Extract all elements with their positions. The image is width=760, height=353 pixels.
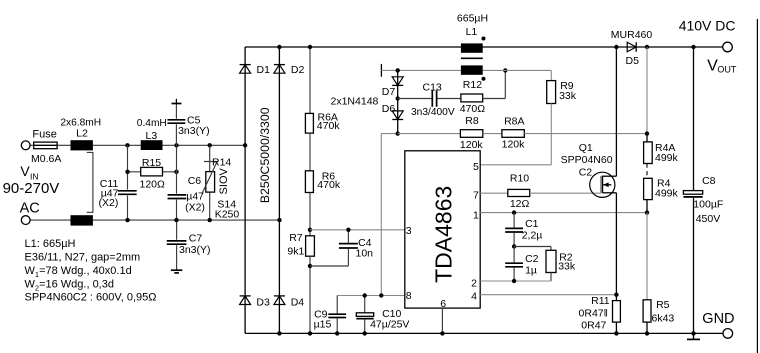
svg-text:1: 1 — [473, 209, 479, 221]
varistor R14 body — [206, 172, 215, 193]
wire R9 to pin 5 — [550, 104, 552, 165]
varistor R14 arrow — [202, 162, 217, 195]
diode D7 — [392, 77, 403, 86]
wire L2 bottom to bridge right leg — [93, 219, 280, 221]
wire to R5 — [646, 213, 648, 300]
svg-text:0.4mH: 0.4mH — [137, 118, 167, 129]
svg-text:90-270V: 90-270V — [3, 180, 60, 197]
junction dot C10 at gnd rail — [363, 331, 367, 335]
svg-text:L1: L1 — [466, 26, 478, 38]
pin 7 wire to R10 — [480, 192, 508, 194]
junction dot C1 top — [512, 210, 516, 214]
diode D2 — [274, 65, 285, 74]
junction dot source/pin4/R11 — [614, 293, 618, 297]
svg-text:OUT: OUT — [717, 65, 737, 75]
bottom GND rail — [245, 332, 723, 334]
junction dot D7 top — [396, 68, 400, 72]
svg-text:4: 4 — [471, 290, 477, 302]
wire R6 to pin3 node — [309, 193, 311, 236]
L1 polarity dot top — [482, 37, 486, 41]
svg-text:3: 3 — [406, 225, 412, 237]
pin 4 wire — [480, 294, 616, 296]
svg-text:R5: R5 — [656, 299, 670, 311]
junction dot pin6 at gnd rail — [440, 331, 444, 335]
R15 left junction dot — [125, 170, 129, 174]
svg-text:C7: C7 — [189, 233, 203, 245]
junction dot C8 at gnd rail — [691, 331, 695, 335]
junction dot R14 branch — [208, 143, 212, 147]
svg-text:3n3(Y): 3n3(Y) — [178, 125, 210, 137]
IC U1 TDA4863 body — [405, 151, 480, 308]
svg-text:5: 5 — [473, 161, 479, 173]
transistor Q1 circle — [590, 172, 615, 197]
capacitor C6 — [167, 195, 188, 199]
capacitor C1 — [504, 228, 524, 232]
diode D3 — [240, 296, 251, 305]
input terminal bottom (neutral) — [21, 216, 30, 225]
L1 secondary polarity dot — [482, 77, 486, 81]
wire rail to R4A node — [646, 47, 648, 134]
svg-text:D1: D1 — [257, 64, 271, 76]
capacitor C11 — [117, 191, 138, 195]
wire secondary right to R9 — [483, 69, 552, 71]
inductor L2 lower winding — [71, 215, 93, 225]
junction dot C5 branch — [174, 143, 178, 147]
junction dot D6 bottom — [396, 131, 400, 135]
bridge left leg wire — [244, 47, 246, 333]
resistor R6A — [305, 113, 313, 133]
svg-text:R8: R8 — [465, 115, 479, 127]
svg-text:D2: D2 — [291, 64, 305, 76]
junction dot R6 chain at rail — [308, 45, 312, 49]
resistor R2 — [546, 250, 556, 272]
wire L3 to bridge — [163, 144, 246, 146]
svg-text:(X2): (X2) — [185, 202, 205, 214]
diode D6 wires — [397, 99, 399, 134]
wire C1/C2 node to R2 — [514, 246, 551, 248]
wire R12 right to secondary node — [483, 98, 506, 100]
svg-text:M0.6A: M0.6A — [31, 153, 61, 165]
svg-text:D6: D6 — [382, 103, 396, 115]
svg-text:6: 6 — [440, 298, 446, 310]
wire R8A to R4A node — [524, 133, 647, 135]
svg-text:0R47: 0R47 — [581, 320, 606, 332]
R2 bottom wire — [550, 273, 552, 282]
resistor R10 — [508, 189, 530, 196]
junction dot C4 top — [346, 228, 350, 232]
svg-text:3n3/400V: 3n3/400V — [411, 107, 455, 118]
capacitor C13 — [432, 89, 436, 108]
svg-text:470k: 470k — [317, 120, 341, 132]
resistor R5 — [643, 300, 651, 322]
wire D6 node to R8 — [398, 133, 461, 135]
terminal GND — [723, 329, 733, 339]
R15 right junction dot — [174, 170, 178, 174]
svg-text:SPP04N60: SPP04N60 — [561, 154, 613, 166]
svg-text:33k: 33k — [559, 90, 577, 102]
junction dot pin3 node — [308, 228, 312, 232]
svg-text:L2: L2 — [76, 128, 88, 140]
junction dot C9 at gnd rail — [335, 331, 339, 335]
svg-text:R7: R7 — [289, 232, 303, 244]
svg-text:2x1N4148: 2x1N4148 — [331, 95, 379, 107]
pin 8 wire — [337, 295, 405, 297]
svg-text:L3: L3 — [146, 130, 158, 142]
svg-text:12Ω: 12Ω — [510, 198, 530, 210]
resistor R11 — [613, 301, 621, 323]
svg-text:µ15: µ15 — [314, 319, 332, 331]
junction dot C2 bottom — [512, 279, 516, 283]
junction dot R8A at R4A chain — [645, 131, 649, 135]
resistor R6 — [305, 171, 313, 193]
svg-text:C6: C6 — [188, 175, 202, 187]
svg-text:10n: 10n — [356, 248, 374, 260]
resistor R12 — [461, 94, 483, 102]
svg-text:410V DC: 410V DC — [679, 17, 736, 33]
wire AC live input to fuse — [30, 144, 34, 146]
svg-text:Q1: Q1 — [579, 142, 593, 154]
svg-text:D3: D3 — [256, 297, 270, 309]
svg-text:C8: C8 — [702, 175, 716, 187]
wire R6A to R6 — [309, 133, 311, 171]
diode D6 — [392, 111, 403, 120]
wire R4A top lead — [646, 134, 648, 142]
svg-text:C2: C2 — [579, 167, 593, 179]
capacitor C10 wires — [364, 296, 366, 313]
svg-text:B250C5000/3300: B250C5000/3300 — [258, 107, 272, 203]
svg-text:470k: 470k — [317, 179, 341, 191]
capacitor C8 electrolytic — [683, 191, 702, 195]
svg-text:R15: R15 — [142, 157, 161, 169]
wire R4 to pin1 node — [646, 200, 648, 213]
border line right — [756, 19, 758, 353]
inductor L3 — [141, 140, 163, 150]
svg-text:665µH: 665µH — [457, 13, 488, 25]
junction dot C10 top — [363, 293, 367, 297]
R6 chain top wire — [309, 47, 311, 113]
svg-text:L1: 665µH: L1: 665µH — [25, 238, 76, 250]
svg-text:2,2µ: 2,2µ — [522, 230, 543, 242]
junction dot C1/C2 — [512, 244, 516, 248]
svg-text:470Ω: 470Ω — [460, 103, 486, 115]
junction dot ZCD at pin8 wire — [379, 293, 383, 297]
svg-text:W1=78 Wdg., 40x0.1d: W1=78 Wdg., 40x0.1d — [25, 265, 132, 279]
svg-text:µ47: µ47 — [186, 190, 204, 202]
ground symbol above C5 — [175, 99, 177, 104]
svg-text:R14: R14 — [212, 157, 231, 169]
svg-text:499k: 499k — [655, 187, 679, 199]
capacitor C4 — [338, 244, 359, 248]
svg-text:47µ/25V: 47µ/25V — [370, 318, 409, 330]
svg-text:SPP4N60C2 : 600V, 0,95Ω: SPP4N60C2 : 600V, 0,95Ω — [25, 292, 157, 304]
junction dot R7 at gnd rail — [308, 331, 312, 335]
winding terminal bar — [380, 64, 382, 77]
pin 3 wire — [310, 229, 405, 231]
C8 top wire — [693, 47, 695, 190]
svg-text:V: V — [20, 163, 30, 179]
junction dot bridge right leg at gnd rail — [277, 331, 281, 335]
junction dot bottom AC at right leg — [277, 218, 281, 222]
capacitor C7 — [166, 241, 188, 244]
resistor R9 — [547, 81, 556, 104]
chassis mark below rail — [693, 333, 695, 338]
junction dot R7/C4 bottom — [308, 264, 312, 268]
junction dot C8 at rail — [691, 45, 695, 49]
svg-text:D4: D4 — [291, 297, 305, 309]
resistor R8 — [460, 130, 482, 138]
svg-text:33k: 33k — [558, 261, 576, 273]
node A junction dot — [125, 143, 129, 147]
diode D1 — [240, 65, 251, 74]
junction dot at bridge left leg — [243, 143, 247, 147]
svg-text:9k1: 9k1 — [287, 246, 304, 258]
L1 core line — [461, 57, 483, 59]
svg-text:(X2): (X2) — [99, 197, 119, 209]
ground symbol below C7 — [171, 269, 182, 271]
svg-text:R10: R10 — [510, 173, 529, 185]
C4 bottom wire — [347, 249, 349, 266]
C2 column wires — [513, 247, 515, 263]
svg-text:3n3(Y): 3n3(Y) — [179, 244, 211, 256]
svg-text:Fuse: Fuse — [32, 128, 56, 140]
wire L2 to node A (top AC) — [93, 144, 141, 146]
junction dot right leg top — [277, 45, 281, 49]
svg-text:C13: C13 — [423, 82, 442, 94]
pin 2 wire — [480, 280, 551, 282]
capacitor C2 — [504, 263, 524, 267]
varistor R14 branch wire — [209, 145, 211, 171]
resistor R7 — [306, 236, 315, 256]
inductor L1 primary winding — [461, 43, 483, 52]
svg-text:0R47‖: 0R47‖ — [579, 308, 608, 320]
inductor L1 secondary winding — [461, 65, 483, 74]
ZCD wire to pin 8 — [381, 134, 397, 296]
wire R7 to gnd rail — [309, 256, 311, 333]
svg-text:W2=16 Wdg., 0,3d: W2=16 Wdg., 0,3d — [25, 279, 114, 293]
capacitor C4 top wire — [347, 230, 349, 243]
svg-text:1µ: 1µ — [525, 265, 537, 277]
capacitor C10 electrolytic — [356, 313, 373, 317]
Q1 source wire — [615, 193, 617, 301]
svg-text:8: 8 — [406, 290, 412, 302]
wire C13 row — [398, 98, 461, 100]
svg-text:E36/11, N27, gap=2mm: E36/11, N27, gap=2mm — [25, 252, 141, 264]
junction dot D7/D6/C13 — [396, 96, 400, 100]
svg-text:R12: R12 — [463, 79, 482, 91]
svg-text:D5: D5 — [626, 55, 640, 67]
junction dot C11 bottom — [125, 218, 129, 222]
junction dot Q1 drain at rail — [614, 45, 618, 49]
capacitor C9 — [327, 314, 347, 317]
svg-text:120k: 120k — [502, 139, 526, 151]
wire terminal to secondary winding — [381, 69, 461, 71]
junction dot R5 at gnd rail — [645, 331, 649, 335]
wire C7 branch — [176, 220, 178, 240]
Q1 gate bar — [600, 176, 602, 194]
Q1 drain stub — [602, 175, 616, 177]
svg-text:D7: D7 — [382, 86, 396, 98]
svg-text:450V: 450V — [696, 213, 721, 225]
resistor R4A — [644, 142, 653, 164]
svg-text:120k: 120k — [460, 139, 484, 151]
fuse F1 M0.6A — [34, 142, 57, 149]
junction dot R14 bottom — [208, 218, 212, 222]
svg-text:AC: AC — [20, 201, 40, 217]
resistor R8A — [502, 130, 524, 138]
C8 bottom wire — [693, 198, 695, 334]
wire AC neutral input — [30, 219, 71, 221]
svg-text:GND: GND — [702, 311, 734, 327]
svg-text:C1: C1 — [525, 218, 539, 230]
wire fuse to L2 — [57, 144, 70, 146]
resistor R4 — [644, 178, 653, 199]
junction dot pin1/R4/R5 — [645, 210, 649, 214]
top DC rail — [245, 46, 723, 48]
svg-text:100µF: 100µF — [693, 198, 723, 210]
bridge right leg wire — [278, 47, 280, 333]
svg-text:K250: K250 — [215, 209, 240, 221]
junction dot C6 bottom — [174, 218, 178, 222]
diode D4 — [274, 296, 285, 305]
diode D7 wires — [397, 70, 399, 98]
pin 1 wire — [480, 212, 647, 214]
capacitor C9 wires — [336, 296, 338, 314]
inductor L2 upper winding — [71, 140, 93, 150]
capacitor C5 — [166, 120, 186, 123]
L2 core bracket — [87, 152, 93, 212]
wire R10 to gate — [530, 192, 601, 194]
R5 bottom wire — [646, 322, 648, 333]
svg-text:R11: R11 — [591, 295, 610, 307]
Q1 channel bar — [601, 176, 603, 193]
output terminal VOUT — [723, 42, 733, 52]
Q1 bulk arrow — [603, 184, 611, 186]
svg-text:7: 7 — [473, 189, 479, 201]
wire vertical C11/R15 branch — [127, 145, 129, 189]
junction dot R4A chain at rail — [645, 45, 649, 49]
svg-text:499k: 499k — [655, 152, 679, 164]
junction dot secondary right — [503, 68, 507, 72]
Q1 source stub — [602, 192, 616, 194]
wire R8 to R8A — [483, 133, 502, 135]
svg-text:2: 2 — [471, 278, 477, 290]
resistor R15 — [128, 171, 177, 173]
Q1 drain wire — [615, 47, 617, 176]
diode D5 MUR460 — [627, 42, 636, 52]
svg-text:MUR460: MUR460 — [611, 29, 653, 41]
C5 branch vertical wire — [175, 104, 177, 119]
junction dot R11 at gnd rail — [614, 331, 618, 335]
svg-text:C2: C2 — [525, 253, 539, 265]
input terminal top (live) — [21, 141, 30, 150]
svg-text:6k43: 6k43 — [652, 312, 675, 324]
vertical wire x176 R15/C6 branch — [176, 145, 178, 194]
svg-text:SIOV: SIOV — [218, 167, 230, 194]
svg-text:R8A: R8A — [504, 115, 524, 127]
svg-text:120Ω: 120Ω — [140, 179, 166, 191]
pin 6 wire — [441, 308, 443, 333]
svg-text:TDA4863: TDA4863 — [431, 186, 457, 283]
C1 column wires — [513, 213, 515, 228]
R11 bottom wire — [615, 322, 617, 333]
dashed link R4A-R4 — [646, 164, 648, 179]
